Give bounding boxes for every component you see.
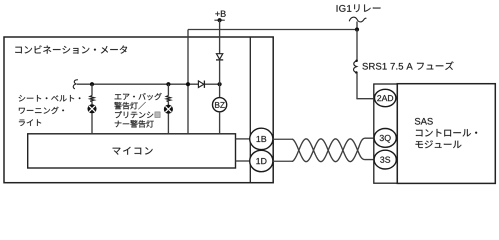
twisted pair wire lower (1D to 3Q) [273,138,374,161]
fuse SRS1 symbol squiggle [354,61,357,73]
label: module (mojuuru) [415,140,461,148]
+B terminal bar [214,19,224,21]
wire: zigzag to lamp [91,101,93,105]
diode D1 cathode bar [216,59,223,61]
wire: seat lamp to maikon [91,113,93,134]
wire: air bag lamp to maikon [167,114,169,134]
wire: IG1 bus horizontal [188,29,357,31]
label: air bag line1 [115,93,162,100]
wire: air bag lamp drop from bus [167,84,169,96]
pin 1D circle [250,150,273,171]
label: missing glyph box (small yo) [155,112,160,118]
microcomputer box (maikon) [28,134,236,168]
label: SRS1 7.5 A fuse [362,61,453,70]
diode D2 cathode bar [203,81,205,88]
diode D2 (bus to buzzer node) triangle [198,81,204,88]
label: control (kontorooru) [416,129,477,137]
wire: fuse down to elbow [356,73,358,99]
SAS connector strip [374,84,398,183]
wire: diode D1 to buzzer [219,60,221,98]
wire: lamp bus right segment (diode to BZ node) [204,83,219,85]
air bag warning lamp symbol [164,105,173,114]
wire: maikon to pin 1D [236,160,251,162]
label: +B [215,11,225,17]
air bag lamp resistor zigzag [166,96,170,102]
buzzer BZ circle [213,98,227,112]
label: 3S [380,157,390,163]
wire: IG1 squiggle stub down [356,22,358,30]
diode D1 (+B to buzzer) triangle [216,54,222,60]
label: seat belt line3 [19,119,41,126]
label: IG1 relay (IG1 riree) [337,4,381,12]
IG1 relay continuation squiggle [349,17,366,22]
junction dot air-bag branch [166,82,170,86]
label: air bag line2 [114,102,145,109]
seat belt warning lamp symbol [87,104,96,113]
pin 2AD circle [375,89,396,106]
wire: IG1 bus corner down to maikon [187,30,189,134]
meter connector strip inner line [249,37,251,183]
lamp bus continuation hook [73,80,78,89]
wire: IG1 node down to fuse [356,30,358,61]
label: seat belt line1 [19,95,81,102]
label: 1D [256,158,266,164]
junction dot IG1/fuse node [355,27,359,31]
label: air bag line4 [115,120,154,127]
+B terminal dot [218,18,222,22]
label: combination meter (konbineeshon meeta) [15,45,127,53]
wire: buzzer to maikon [219,112,221,134]
wire: lamp bus left segment [77,83,198,85]
label: 3Q [380,135,391,143]
wire: elbow to pin 2AD [356,98,374,100]
pin 3S circle [374,150,396,169]
seat lamp resistor zigzag [90,96,94,102]
label: maikon (microcomputer) [113,147,153,155]
wire: maikon to pin 1B [236,138,251,140]
twisted pair wire upper (1B to 3S) [273,139,374,162]
SAS control module box [397,84,495,184]
junction dot lamp bus / buzzer line [218,82,222,86]
junction dot IG1 line / lamp bus [186,82,190,86]
label: 2AD [377,95,393,101]
combination meter box outline [4,37,273,183]
junction dot seat-belt branch [90,82,94,86]
wire: seat lamp drop from bus [91,84,93,96]
label: air bag line3 [115,111,153,118]
wire: zigzag to lamp [167,101,169,105]
label: 1B [257,136,267,142]
pin 3Q circle [374,129,396,148]
label: BZ [215,102,225,108]
pin 1B circle [250,128,273,149]
label: SAS [415,118,433,125]
label: seat belt line2 [19,107,64,114]
wire: +B down to diode D1 [219,20,221,53]
